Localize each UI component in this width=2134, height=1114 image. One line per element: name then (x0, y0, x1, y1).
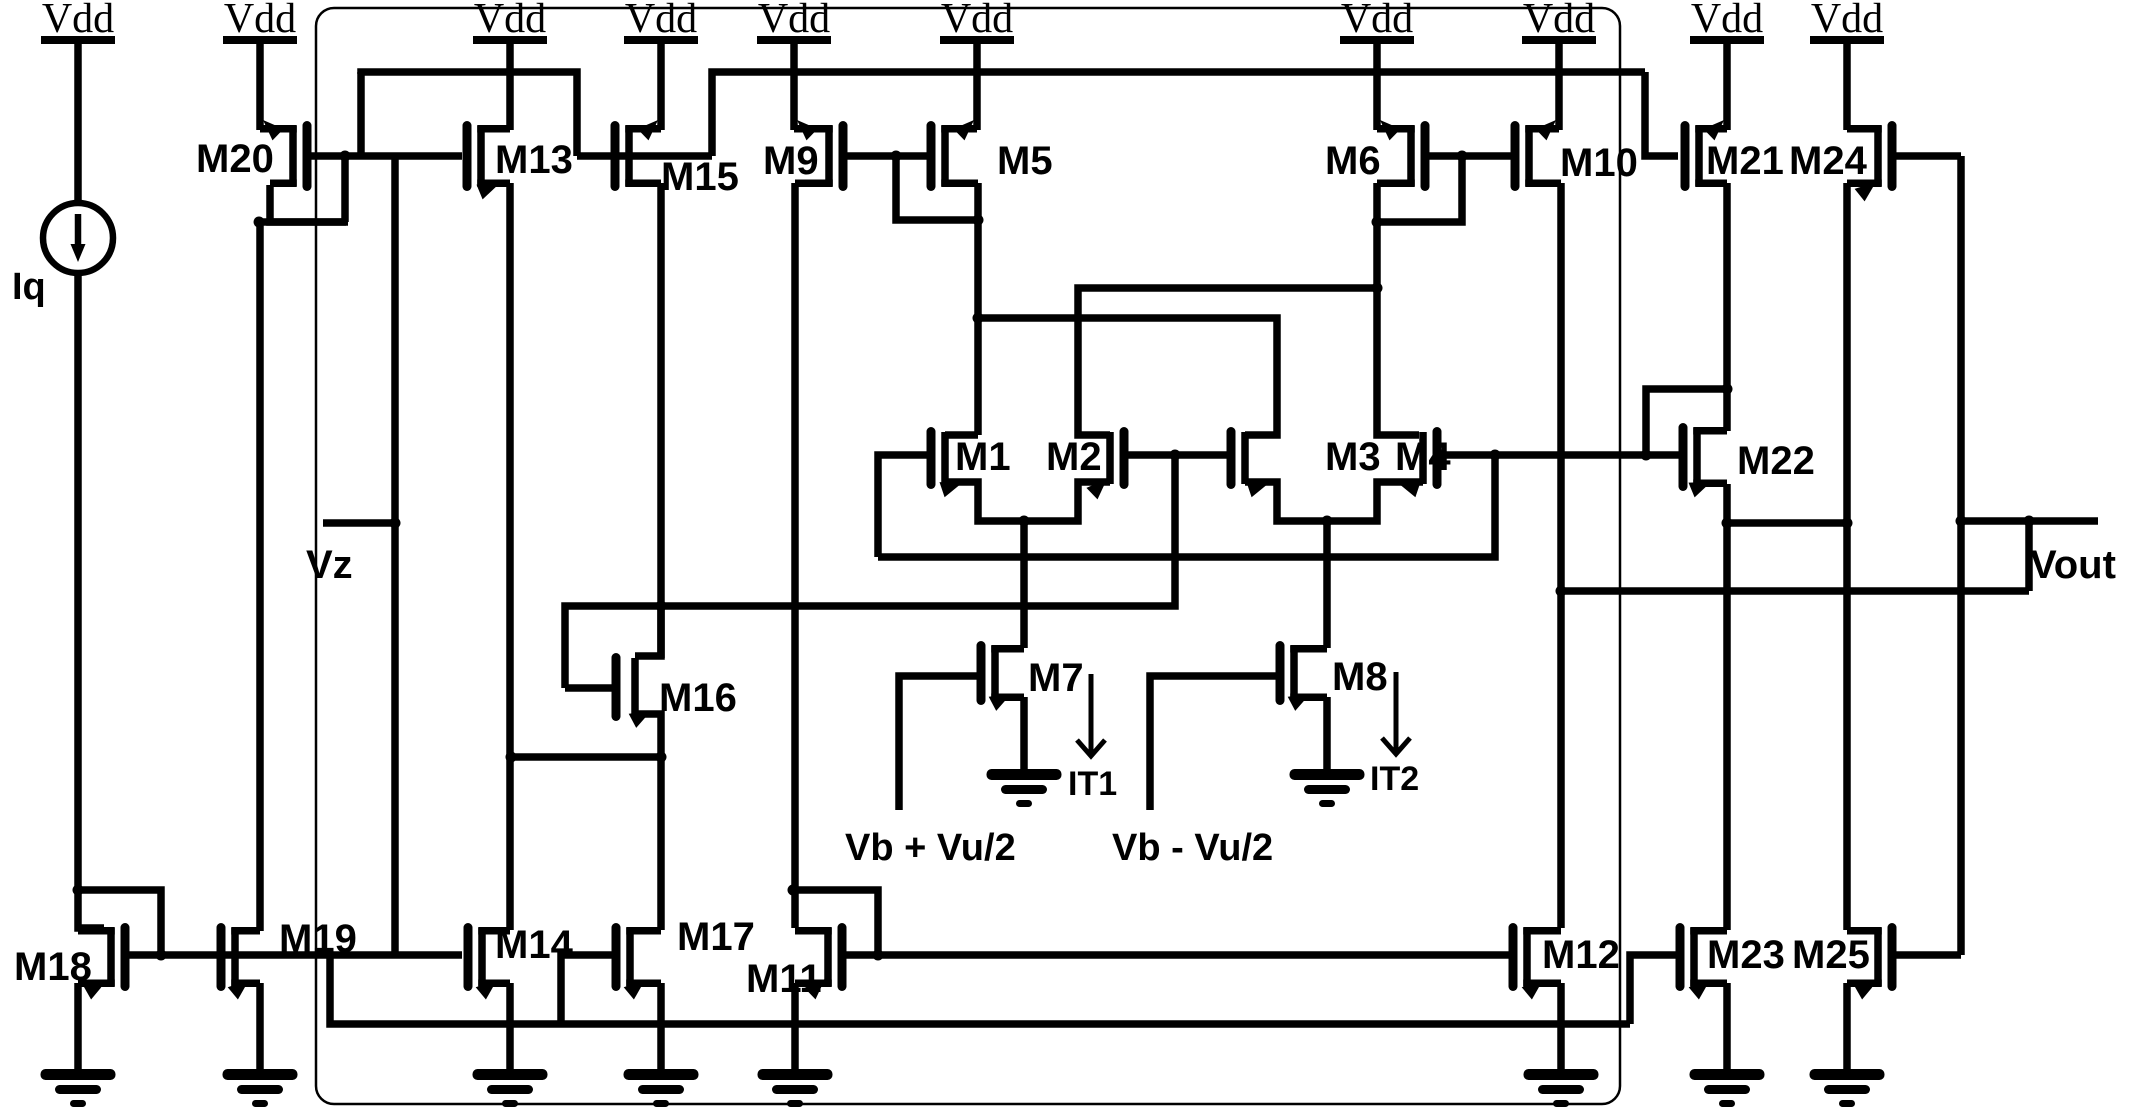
wire M2 drain riser (1078, 288, 1377, 435)
wire bias bus riser (712, 72, 1645, 156)
wire Vdd to M5 source (973, 44, 981, 130)
svg-text:Vdd: Vdd (474, 0, 546, 42)
junction M6 drain node (1372, 217, 1383, 228)
svg-text:Vdd: Vdd (625, 0, 697, 42)
wire M5 diode tie (896, 156, 978, 220)
wire Vz terminal stub (323, 519, 395, 527)
wire Vdd to M6 source (1373, 44, 1381, 130)
wire M25 gate lead (1896, 951, 1961, 959)
power Vdd rail for Iq (41, 0, 115, 44)
ground symbol under M19 (223, 1069, 298, 1107)
transistor M2 (1086, 432, 1124, 500)
wire M17 source to ground (657, 983, 665, 1073)
junction M4 gate tap (1490, 450, 1501, 461)
svg-text:M3: M3 (1325, 435, 1381, 479)
svg-text:M22: M22 (1737, 439, 1815, 483)
svg-text:M18: M18 (14, 945, 92, 989)
ground symbol under M8 (1290, 769, 1365, 807)
wire bias bus through M15 gate (577, 152, 712, 160)
svg-text:M9: M9 (763, 139, 819, 183)
wire bottom bias bus left (125, 951, 462, 959)
transistor M9 (794, 120, 843, 187)
transistor M20 (260, 120, 307, 187)
wire Vdd to M10 source (1555, 44, 1563, 130)
wire M2-M3 gate link (1124, 451, 1228, 459)
wire M1 gate lead (878, 455, 927, 557)
wire M18 diode tie (78, 890, 161, 955)
wire M11-M12 gate bus (844, 951, 1512, 959)
ground symbol under M11 (758, 1069, 833, 1107)
svg-text:M23: M23 (1707, 933, 1785, 977)
junction Vout stub corner (2024, 516, 2035, 527)
svg-text:M24: M24 (1789, 139, 1868, 183)
junction M20 drain node (254, 217, 265, 228)
wire Vdd to M15 source (657, 44, 665, 130)
wire M15 drain column (657, 183, 665, 658)
junction M24 drain node (1842, 518, 1853, 529)
wire M20 drain tie (270, 185, 346, 222)
wire M12 source to ground (1557, 983, 1565, 1073)
power Vdd rail for M24 (1810, 0, 1884, 44)
wire Vout bend (2025, 521, 2033, 591)
transistor M4 (1398, 432, 1437, 498)
junction M16 source left (506, 752, 517, 763)
schematic boundary box (316, 8, 1620, 1104)
junction M6-M2 cross node (1372, 283, 1383, 294)
wire M1 source jog (945, 482, 1024, 521)
ground symbol under M14 (473, 1069, 548, 1107)
wire M16 source tie (511, 753, 661, 761)
svg-text:Vdd: Vdd (758, 0, 830, 42)
wire Vdd to M21 source (1723, 44, 1731, 130)
wire bias bus to M21 gate (1645, 72, 1678, 156)
junction M5 drain node (973, 215, 984, 226)
svg-text:Vdd: Vdd (1811, 0, 1883, 42)
wire M20 drain to M19 column (256, 218, 348, 226)
power Vdd rail for M9 (757, 0, 831, 44)
wire M6 diode tie (1377, 156, 1462, 222)
svg-text:M25: M25 (1792, 933, 1870, 977)
svg-text:M5: M5 (997, 139, 1053, 183)
wire M17 gate lead (561, 955, 612, 1024)
wire M18 source to ground (74, 983, 82, 1073)
svg-text:M11: M11 (746, 957, 822, 1001)
ground symbol under M12 (1524, 1069, 1599, 1107)
wire M6-M10 gate link (1429, 152, 1512, 160)
svg-text:Vb + Vu/2: Vb + Vu/2 (845, 827, 1016, 869)
svg-text:M17: M17 (677, 915, 755, 959)
transistor M10 (1515, 120, 1561, 187)
svg-text:Vout: Vout (2030, 543, 2116, 587)
wire M2-M3 gate drop (565, 455, 1175, 688)
power Vdd rail for M20 (223, 0, 297, 44)
svg-text:Vb - Vu/2: Vb - Vu/2 (1112, 827, 1273, 869)
junction M24-M25 gate tap (1956, 516, 1967, 527)
wire M21 drain to M22 source (1723, 183, 1731, 431)
junction M16 source right (656, 752, 667, 763)
svg-text:M19: M19 (279, 917, 357, 961)
transistor M24 (1847, 126, 1892, 202)
transistor M21 (1685, 120, 1727, 187)
svg-text:M12: M12 (1542, 933, 1620, 977)
svg-text:Vdd: Vdd (42, 0, 114, 42)
wire M20 gate to M13 gate (310, 152, 462, 160)
wire M9 drain column (791, 183, 799, 928)
power Vdd rail for M15 (624, 0, 698, 44)
ground symbol under M7 (987, 769, 1062, 807)
svg-text:IT2: IT2 (1370, 760, 1419, 798)
wire Vdd to M13 drain (506, 44, 514, 130)
svg-text:M7: M7 (1028, 656, 1084, 700)
wire M2 source jog (1024, 482, 1110, 521)
wire tail to M8 drain (1323, 521, 1331, 648)
wire M19 drain column (256, 222, 264, 931)
transistor M5 (931, 120, 978, 187)
transistor M13 (467, 126, 510, 200)
wire M6 drain column (1377, 183, 1419, 435)
junction M18 drain tap (73, 885, 84, 896)
svg-text:Vdd: Vdd (1523, 0, 1595, 42)
power Vdd rail for M21 (1690, 0, 1764, 44)
wire M8 source to ground (1323, 697, 1331, 773)
transistor M3 (1231, 432, 1269, 498)
svg-text:Vz: Vz (306, 543, 353, 587)
junction M1-M2 tail (1019, 516, 1030, 527)
power Vdd rail for M6 (1340, 0, 1414, 44)
wire Iq to M18 drain (78, 273, 104, 928)
wire M16 drain bend (635, 606, 661, 656)
transistor M14 (468, 928, 510, 1000)
wire Vdd to Iq (74, 44, 82, 203)
wire Vdd to M9 source (790, 44, 798, 130)
wire M1-M4 gate link (878, 455, 1495, 557)
transistor M25 (1847, 928, 1892, 1000)
wire Vz column (391, 156, 399, 956)
wire bias bus segment 1 (361, 72, 577, 156)
wire M22-M24 drain link (1727, 519, 1847, 527)
svg-text:M20: M20 (196, 137, 274, 181)
junction M11 gate node (873, 950, 884, 961)
wire M7 gate input (899, 676, 981, 810)
junction M11 drain tap (788, 885, 799, 896)
junction M22 drain node (1722, 518, 1733, 529)
transistor M23 (1680, 928, 1727, 1000)
svg-text:M2: M2 (1046, 435, 1102, 479)
svg-text:M1: M1 (955, 435, 1011, 479)
svg-text:M6: M6 (1325, 139, 1381, 183)
svg-text:M8: M8 (1332, 655, 1388, 699)
transistor M12 (1513, 928, 1561, 1000)
wire M19 source to ground (256, 983, 264, 1073)
junction M5-M3 cross node (973, 313, 984, 324)
junction Vz node (390, 518, 401, 529)
ground symbol under M17 (624, 1069, 699, 1107)
junction M18 gate node (156, 950, 167, 961)
transistor M6 (1377, 120, 1425, 187)
transistor M17 (616, 928, 661, 1000)
junction M20 gate node (340, 151, 351, 162)
svg-text:Iq: Iq (12, 266, 46, 308)
wire M14 source to ground (506, 983, 514, 1073)
svg-text:IT1: IT1 (1068, 765, 1117, 803)
wire M7 source to ground (1020, 697, 1028, 773)
svg-text:M21: M21 (1706, 139, 1784, 183)
wire M24-M25 gate column (1957, 156, 1965, 955)
wire M22 drain column (1723, 484, 1731, 930)
svg-text:M10: M10 (1560, 141, 1638, 185)
wire M11 diode tie (793, 890, 878, 955)
wire M16 source bend (638, 714, 661, 930)
wire M4 gate lead (1437, 451, 1681, 459)
wire M23 gate lead (1630, 955, 1680, 1024)
wire bias bus drop into gate wire (357, 72, 365, 159)
wire M9-M5 gate link (845, 152, 929, 160)
transistor M22 (1683, 428, 1727, 498)
junction M22 source node (1722, 384, 1733, 395)
wire M24 gate lead (1895, 152, 1961, 160)
wire M11 source to ground (791, 983, 799, 1073)
wire Vdd to M20 source (256, 44, 264, 130)
svg-text:Vdd: Vdd (941, 0, 1013, 42)
svg-text:Vdd: Vdd (224, 0, 296, 42)
transistor M18 (78, 928, 125, 1000)
transistor M16 (616, 658, 651, 728)
junction Vout at M10 column (1556, 586, 1567, 597)
power Vdd rail for M5 (940, 0, 1014, 44)
wire Vdd to M24 source (1843, 44, 1851, 130)
ground symbol under M25 (1810, 1069, 1885, 1107)
transistor M8 (1280, 646, 1327, 711)
transistor M19 (221, 928, 260, 1000)
current arrow IT1 (1077, 674, 1105, 756)
wire M16 gate lead (565, 684, 612, 692)
wire M3 source jog (1245, 482, 1327, 521)
wire M1 drain lead (945, 431, 978, 439)
junction M6-M10 gate node (1457, 151, 1468, 162)
transistor M11 (795, 928, 842, 1000)
svg-text:M16: M16 (659, 676, 737, 720)
power Vdd rail for M13 (473, 0, 547, 44)
transistor M15 (615, 120, 661, 187)
junction M2-M3 gate node (1170, 450, 1181, 461)
wire Vout stub (1961, 517, 2098, 525)
wire M25 source to ground (1843, 983, 1851, 1073)
ground symbol under M23 (1690, 1069, 1765, 1107)
svg-text:Vdd: Vdd (1341, 0, 1413, 42)
wire M22 gate loop (1646, 389, 1727, 455)
wire tail to M7 drain (1020, 521, 1028, 648)
svg-text:Vdd: Vdd (1691, 0, 1763, 42)
wire M10 drain column (1557, 183, 1565, 928)
svg-text:M15: M15 (661, 155, 739, 199)
wire M23 source to ground (1723, 983, 1731, 1073)
transistor M1 (931, 432, 962, 498)
wire M5 drain column (974, 183, 982, 435)
transistor M7 (981, 646, 1024, 711)
wire M4 source jog (1327, 482, 1423, 521)
current arrow IT2 (1382, 672, 1410, 754)
junction M16 drain on bus (656, 601, 667, 612)
svg-text:M13: M13 (495, 138, 573, 182)
wire bias bus drop (330, 955, 1630, 1024)
wire M8 gate input (1150, 676, 1280, 810)
wire M13 source column (506, 183, 514, 930)
wire Vout bus (1561, 587, 2029, 595)
current source Iq (43, 203, 113, 273)
junction M9-M5 gate node (891, 151, 902, 162)
ground symbol under M18 (41, 1069, 116, 1107)
power Vdd rail for M10 (1522, 0, 1596, 44)
wire M20 gate-drain vertical (341, 156, 349, 222)
wire M3 drain riser (978, 318, 1277, 435)
junction M3-M4 tail (1322, 516, 1333, 527)
wire M24 drain column (1843, 183, 1851, 930)
junction M22 gate node (1641, 450, 1652, 461)
